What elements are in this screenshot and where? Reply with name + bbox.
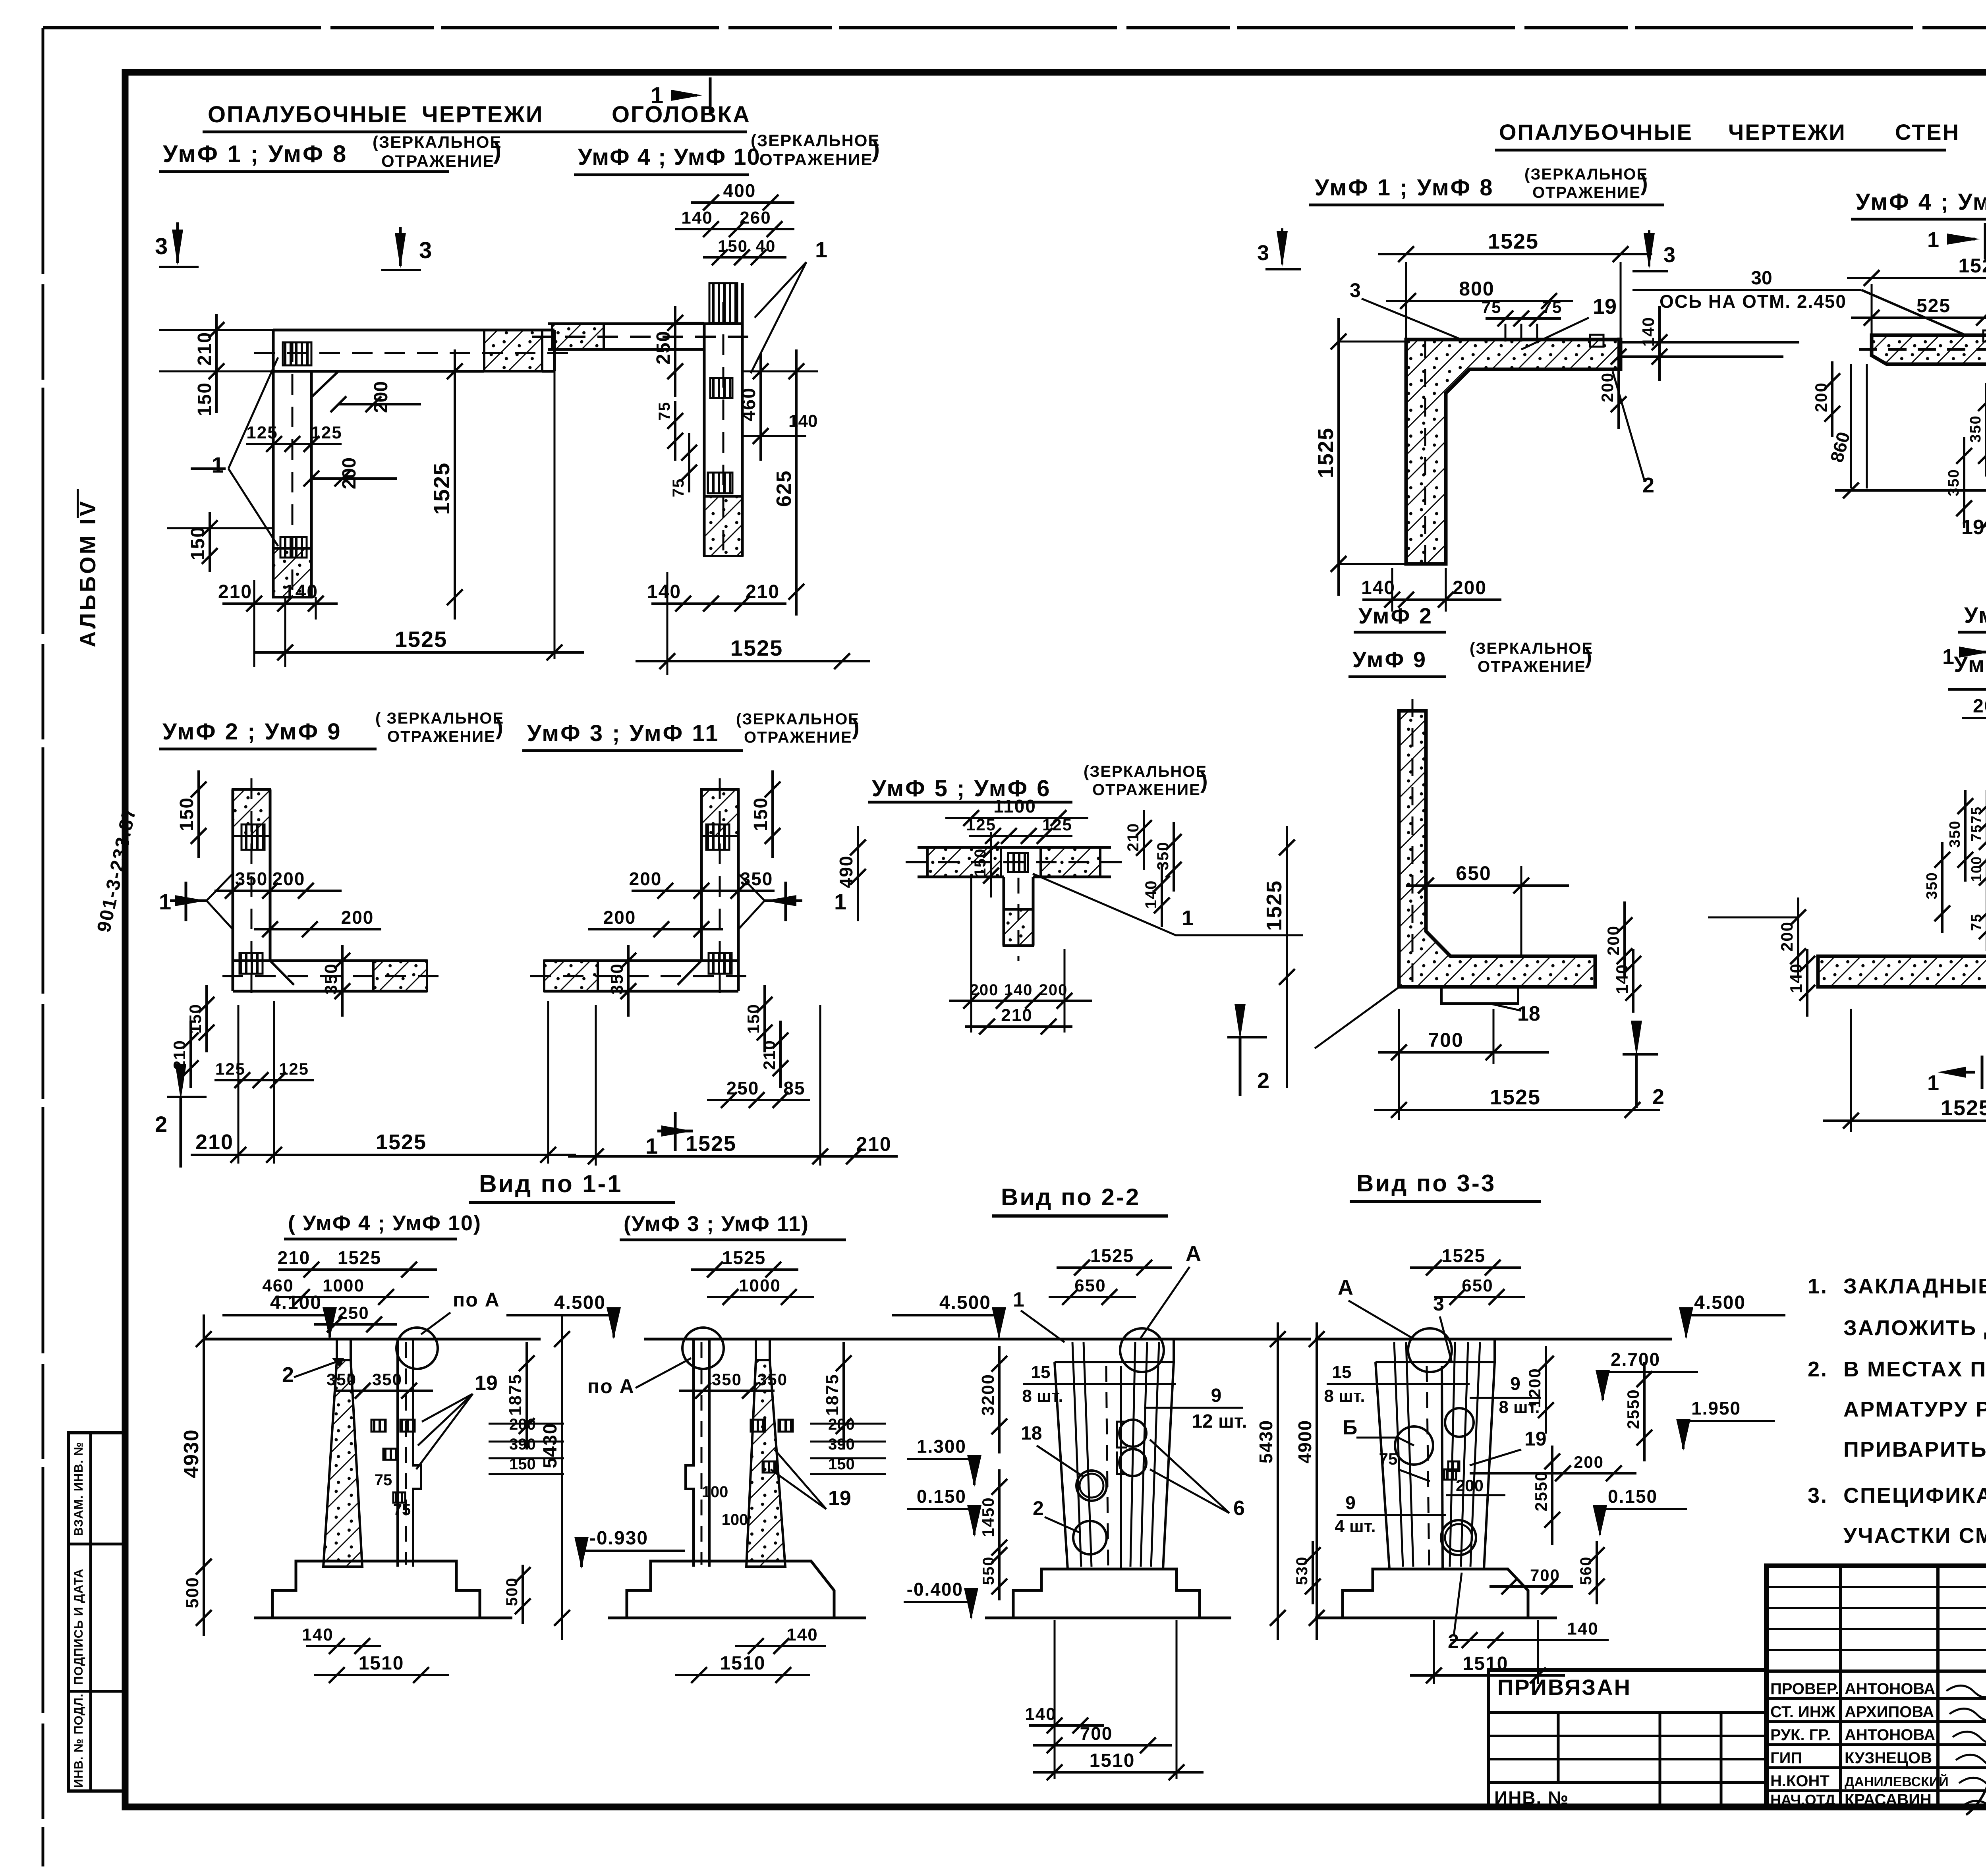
svg-text:1: 1 — [1182, 906, 1194, 930]
svg-text:210: 210 — [760, 1040, 779, 1070]
drawing B dims bottom — [651, 602, 786, 605]
svg-text:1525: 1525 — [338, 1247, 381, 1268]
vid 3-3 circles — [1445, 1408, 1474, 1437]
svg-text:1525: 1525 — [1941, 1096, 1986, 1120]
svg-text:150: 150 — [187, 526, 209, 560]
vid 3-3 footing — [1343, 1569, 1528, 1618]
svg-text:4.500: 4.500 — [554, 1292, 606, 1313]
svg-text:1: 1 — [651, 83, 663, 108]
svg-text:140: 140 — [1004, 981, 1033, 999]
svg-text:): ) — [1200, 768, 1208, 793]
svg-text:ДАНИЛЕВСКИЙ: ДАНИЛЕВСКИЙ — [1845, 1774, 1949, 1789]
svg-text:200: 200 — [970, 981, 999, 999]
svg-text:2.700: 2.700 — [1611, 1349, 1660, 1370]
svg-text:75: 75 — [393, 1501, 411, 1519]
title block main row lines — [1766, 1697, 1986, 1700]
drawing G walls — [1872, 313, 1986, 535]
svg-text:УмФ 4 ; Ум 10: УмФ 4 ; Ум 10 — [1856, 189, 1986, 215]
drawing B walls — [709, 283, 737, 323]
svg-text:ПРИВЯЗАН: ПРИВЯЗАН — [1497, 1675, 1631, 1700]
svg-text:350: 350 — [1924, 872, 1940, 899]
svg-text:РУК. ГР.: РУК. ГР. — [1770, 1726, 1831, 1744]
svg-text:140: 140 — [788, 411, 817, 431]
svg-text:3200: 3200 — [978, 1374, 998, 1416]
svg-text:1100: 1100 — [993, 796, 1036, 816]
svg-text:1: 1 — [1927, 1071, 1939, 1095]
svg-text:140: 140 — [1613, 964, 1631, 994]
svg-text:3: 3 — [1433, 1293, 1444, 1315]
svg-text:9: 9 — [1510, 1373, 1520, 1394]
svg-text:3: 3 — [1257, 241, 1269, 265]
svg-text:ОТРАЖЕНИЕ: ОТРАЖЕНИЕ — [1532, 184, 1641, 201]
svg-text:8 шт.: 8 шт. — [1324, 1386, 1365, 1406]
svg-text:СТЕН: СТЕН — [1895, 120, 1960, 145]
svg-text:140: 140 — [1639, 317, 1658, 347]
svg-text:200: 200 — [1604, 925, 1623, 955]
svg-text:18: 18 — [1517, 1002, 1540, 1025]
svg-text:150: 150 — [972, 848, 989, 877]
svg-text:УмФ 1 ; УмФ 8: УмФ 1 ; УмФ 8 — [163, 141, 348, 167]
svg-text:1450: 1450 — [979, 1497, 997, 1537]
drawing B dims right — [742, 371, 818, 372]
svg-text:350: 350 — [1947, 820, 1963, 847]
svg-text:(УмФ 3 ; УмФ 11): (УмФ 3 ; УмФ 11) — [624, 1212, 809, 1236]
drawing F right dims — [1658, 306, 1661, 381]
svg-text:125: 125 — [279, 1060, 309, 1078]
svg-text:200: 200 — [1777, 921, 1796, 952]
svg-text:(ЗЕРКАЛЬНОЕ: (ЗЕРКАЛЬНОЕ — [373, 133, 502, 151]
svg-text:УЧАСТКИ СМ. ЛИСТ 56.: УЧАСТКИ СМ. ЛИСТ 56. — [1843, 1524, 1986, 1548]
svg-text:3: 3 — [155, 234, 168, 259]
svg-text:ОПАЛУБОЧНЫЕ: ОПАЛУБОЧНЫЕ — [208, 102, 408, 127]
svg-text:500: 500 — [503, 1577, 521, 1606]
svg-text:200: 200 — [1453, 577, 1487, 598]
svg-text:150: 150 — [744, 1004, 763, 1034]
svg-text:1: 1 — [211, 452, 224, 477]
svg-text:1525: 1525 — [1262, 880, 1286, 931]
svg-text:Вид по 3-3: Вид по 3-3 — [1356, 1170, 1496, 1197]
svg-text:1510: 1510 — [720, 1653, 766, 1674]
svg-text:АРМАТУРУ РАЗРЕЗАТЬ, ОТОГНУТЬ: АРМАТУРУ РАЗРЕЗАТЬ, ОТОГНУТЬ И — [1843, 1397, 1986, 1421]
svg-text:125: 125 — [246, 423, 278, 442]
svg-text:75: 75 — [1968, 913, 1984, 931]
svg-text:НАЧ.ОТД: НАЧ.ОТД — [1770, 1792, 1835, 1808]
svg-text:): ) — [852, 714, 860, 739]
title block thin change rows — [1766, 1586, 1986, 1588]
drawing E walls — [918, 846, 1111, 849]
svg-text:125: 125 — [311, 423, 342, 442]
svg-text:АНТОНОВА: АНТОНОВА — [1845, 1680, 1935, 1698]
vid 1-1 left bottom dims — [306, 1645, 381, 1647]
vid 1-1 left elevation — [204, 1338, 541, 1341]
svg-text:500: 500 — [183, 1577, 202, 1608]
svg-text:350: 350 — [712, 1370, 742, 1389]
drawing A dims left — [159, 329, 273, 331]
svg-text:210: 210 — [1001, 1006, 1032, 1025]
privyazan block — [1488, 1668, 1766, 1672]
svg-text:1875: 1875 — [506, 1374, 525, 1416]
svg-text:УмФ 1 ; УмФ 8: УмФ 1 ; УмФ 8 — [1315, 175, 1494, 201]
svg-text:по А: по А — [453, 1289, 500, 1311]
svg-text:12 шт.: 12 шт. — [1192, 1411, 1247, 1432]
svg-text:1525: 1525 — [1314, 427, 1338, 478]
svg-text:УмФ 2 ; УмФ 9: УмФ 2 ; УмФ 9 — [162, 719, 342, 745]
svg-text:8 шт.: 8 шт. — [1022, 1386, 1063, 1406]
svg-text:4900: 4900 — [1294, 1420, 1315, 1463]
svg-text:Б: Б — [1343, 1416, 1357, 1439]
svg-text:ОСЬ НА ОТМ. 2.450: ОСЬ НА ОТМ. 2.450 — [1660, 291, 1847, 312]
vid 2-2 dims — [1057, 1266, 1172, 1269]
svg-text:75: 75 — [1542, 298, 1563, 317]
vid 3-3 column — [1376, 1339, 1495, 1362]
title block signatures — [1946, 1685, 1986, 1697]
left sidebar boxes — [68, 1433, 125, 1791]
svg-text:200: 200 — [339, 457, 360, 489]
svg-text:1525: 1525 — [1090, 1245, 1134, 1266]
svg-text:): ) — [496, 714, 503, 739]
svg-text:2: 2 — [1652, 1085, 1664, 1109]
title block frame — [1766, 1566, 1986, 1808]
vid 3-3 top line — [1315, 1338, 1672, 1341]
svg-text:В МЕСТАХ ПРОХОДА САЛЬНИКОВ: В МЕСТАХ ПРОХОДА САЛЬНИКОВ — [1843, 1357, 1986, 1381]
svg-text:210: 210 — [856, 1133, 891, 1155]
svg-text:200: 200 — [1456, 1476, 1484, 1495]
svg-text:ОТРАЖЕНИЕ: ОТРАЖЕНИЕ — [381, 152, 495, 170]
svg-text:1510: 1510 — [359, 1653, 404, 1674]
svg-text:1: 1 — [1927, 228, 1939, 252]
svg-text:(ЗЕРКАЛЬНОЕ: (ЗЕРКАЛЬНОЕ — [1084, 763, 1207, 780]
svg-text:ПОДПИСЬ И ДАТА: ПОДПИСЬ И ДАТА — [71, 1569, 85, 1685]
svg-text:1: 1 — [645, 1133, 658, 1158]
svg-text:2: 2 — [155, 1112, 167, 1137]
svg-text:АРХИПОВА: АРХИПОВА — [1845, 1703, 1934, 1721]
drawing A dim 1525 vertical — [311, 371, 457, 372]
svg-text:3.: 3. — [1808, 1484, 1828, 1507]
svg-text:1525: 1525 — [1442, 1245, 1486, 1266]
svg-text:530: 530 — [1293, 1556, 1311, 1585]
svg-text:по А: по А — [587, 1375, 635, 1397]
svg-text:200: 200 — [603, 907, 636, 928]
svg-text:125: 125 — [966, 815, 996, 834]
svg-text:40: 40 — [756, 237, 776, 255]
svg-text:200: 200 — [1812, 382, 1830, 412]
svg-text:ОТРАЖЕНИЕ: ОТРАЖЕНИЕ — [1092, 781, 1201, 799]
svg-text:Вид по 1-1: Вид по 1-1 — [479, 1170, 623, 1198]
svg-text:100: 100 — [702, 1483, 728, 1501]
svg-text:3: 3 — [419, 237, 432, 263]
svg-text:460: 460 — [262, 1276, 294, 1295]
svg-text:( УмФ 4 ; УмФ 10): ( УмФ 4 ; УмФ 10) — [288, 1211, 481, 1235]
svg-text:2550: 2550 — [1532, 1471, 1550, 1511]
svg-text:140: 140 — [786, 1625, 818, 1644]
svg-text:(ЗЕРКАЛЬНОЕ: (ЗЕРКАЛЬНОЕ — [1470, 640, 1593, 657]
drawing H long leader — [1315, 985, 1402, 1048]
svg-text:210: 210 — [195, 1130, 234, 1154]
svg-text:100: 100 — [722, 1511, 748, 1529]
svg-text:1525: 1525 — [722, 1247, 766, 1268]
svg-text:19: 19 — [1961, 516, 1984, 539]
svg-text:ОПАЛУБОЧНЫЕ: ОПАЛУБОЧНЫЕ — [1499, 120, 1693, 145]
drawing H walls — [1399, 711, 1595, 987]
svg-text:1000: 1000 — [323, 1276, 365, 1295]
svg-text:75: 75 — [670, 478, 687, 498]
svg-text:200: 200 — [341, 907, 374, 928]
svg-text:210: 210 — [278, 1247, 311, 1268]
drawing C dims — [197, 770, 200, 858]
svg-text:СПЕЦИФИКАЦИЮ НА МОНОЛИТНЫЕ: СПЕЦИФИКАЦИЮ НА МОНОЛИТНЫЕ — [1843, 1484, 1986, 1507]
svg-text:350: 350 — [372, 1370, 402, 1389]
svg-text:АНТОНОВА: АНТОНОВА — [1845, 1726, 1935, 1744]
svg-text:4.500: 4.500 — [939, 1292, 991, 1313]
svg-text:19: 19 — [828, 1487, 851, 1510]
svg-text:3: 3 — [1663, 243, 1675, 267]
svg-text:0.150: 0.150 — [917, 1486, 966, 1507]
vid 2-2 footing — [1013, 1569, 1200, 1618]
svg-text:4.500: 4.500 — [1694, 1292, 1746, 1313]
vid 1-1 left footing — [272, 1561, 480, 1618]
svg-text:УмФ 11: УмФ 11 — [1954, 652, 1986, 677]
svg-text:УмФ 3 ; УмФ 11: УмФ 3 ; УмФ 11 — [527, 720, 720, 746]
svg-text:5430: 5430 — [1256, 1420, 1276, 1463]
svg-text:140: 140 — [1361, 577, 1395, 598]
svg-text:4930: 4930 — [180, 1429, 203, 1478]
svg-text:125: 125 — [1042, 815, 1072, 834]
svg-text:210: 210 — [218, 581, 252, 602]
drawing H dims — [1406, 884, 1569, 887]
svg-text:1.950: 1.950 — [1691, 1398, 1741, 1419]
svg-text:ОТРАЖЕНИЕ: ОТРАЖЕНИЕ — [1478, 658, 1586, 676]
svg-text:ПРОВЕР.: ПРОВЕР. — [1770, 1680, 1839, 1698]
svg-text:2.: 2. — [1808, 1357, 1828, 1381]
svg-text:(ЗЕРКАЛЬНОЕ: (ЗЕРКАЛЬНОЕ — [736, 710, 860, 728]
svg-text:19: 19 — [1524, 1428, 1547, 1450]
svg-text:ГИП: ГИП — [1770, 1749, 1802, 1767]
svg-text:ВЗАМ. ИНВ. №: ВЗАМ. ИНВ. № — [71, 1442, 85, 1536]
svg-text:140: 140 — [1142, 880, 1160, 909]
svg-text:2: 2 — [1257, 1068, 1269, 1093]
svg-text:1525: 1525 — [1958, 255, 1986, 277]
svg-text:ЗАЛОЖИТЬ ДО БЕТОНИРОВАНИЯ.: ЗАЛОЖИТЬ ДО БЕТОНИРОВАНИЯ. — [1843, 1316, 1986, 1340]
svg-text:9: 9 — [1345, 1492, 1356, 1513]
svg-text:200: 200 — [1039, 981, 1068, 999]
vid 2-2 top line — [958, 1338, 1311, 1341]
svg-text:75: 75 — [1968, 824, 1984, 841]
svg-text:1525: 1525 — [1490, 1085, 1541, 1109]
drawing A dims bottom — [253, 580, 255, 667]
svg-text:100: 100 — [1968, 856, 1984, 882]
svg-text:250: 250 — [338, 1303, 369, 1323]
svg-text:А: А — [1186, 1242, 1201, 1266]
svg-text:390: 390 — [509, 1436, 536, 1453]
svg-text:30: 30 — [1751, 268, 1772, 289]
svg-text:УмФ 2: УмФ 2 — [1358, 603, 1433, 628]
svg-text:210: 210 — [746, 581, 780, 602]
drawing F bottom dims — [1362, 598, 1501, 601]
svg-text:): ) — [493, 137, 501, 164]
vid 1-1 right dims — [691, 1268, 798, 1271]
vid 1-1 left dims — [278, 1268, 437, 1271]
svg-text:ИНВ. №: ИНВ. № — [1494, 1787, 1569, 1808]
svg-text:350: 350 — [321, 963, 341, 994]
svg-text:КУЗНЕЦОВ: КУЗНЕЦОВ — [1845, 1749, 1932, 1767]
title block verticals left part — [1839, 1566, 1842, 1808]
svg-text:ОГОЛОВКА: ОГОЛОВКА — [612, 102, 751, 127]
drawing H right dims — [1623, 901, 1626, 977]
svg-text:1525: 1525 — [429, 462, 454, 515]
svg-text:350: 350 — [1945, 469, 1962, 496]
svg-text:6: 6 — [1233, 1497, 1245, 1520]
drawing B small dims 75 — [674, 401, 676, 461]
svg-text:): ) — [1640, 170, 1648, 195]
drawing C walls — [233, 789, 270, 836]
drawing I walls — [1818, 747, 1986, 987]
svg-text:1525: 1525 — [686, 1132, 736, 1156]
svg-text:250: 250 — [726, 1078, 759, 1098]
svg-text:ОТРАЖЕНИЕ: ОТРАЖЕНИЕ — [744, 729, 852, 746]
svg-text:350: 350 — [1967, 415, 1984, 442]
svg-text:4 шт.: 4 шт. — [1335, 1517, 1376, 1536]
svg-text:Н.КОНТ: Н.КОНТ — [1770, 1772, 1830, 1790]
svg-text:ИНВ. № ПОДЛ.: ИНВ. № ПОДЛ. — [71, 1693, 85, 1788]
drawing I small dims left column — [1986, 790, 1986, 842]
svg-text:1000: 1000 — [739, 1276, 781, 1295]
svg-text:700: 700 — [1530, 1566, 1560, 1585]
svg-text:210: 210 — [1124, 823, 1142, 852]
svg-text:1525: 1525 — [376, 1130, 427, 1154]
vid 2-2 bottom dims — [1029, 1724, 1104, 1727]
drawing A dims middle — [246, 443, 342, 445]
vid 3-3 dims — [1410, 1266, 1521, 1269]
svg-text:(ЗЕРКАЛЬНОЕ: (ЗЕРКАЛЬНОЕ — [1524, 166, 1648, 183]
svg-text:0.150: 0.150 — [1608, 1486, 1658, 1507]
vid 1-1 right elev -0.930 — [582, 1550, 685, 1552]
svg-text:1875: 1875 — [823, 1374, 842, 1416]
svg-text:400: 400 — [723, 180, 756, 201]
svg-text:350: 350 — [757, 1370, 788, 1389]
svg-text:1: 1 — [834, 889, 846, 914]
svg-text:2: 2 — [282, 1363, 294, 1387]
svg-text:19: 19 — [1593, 295, 1617, 318]
svg-text:ОТРАЖЕНИЕ: ОТРАЖЕНИЕ — [387, 728, 496, 745]
drawing B dim 250 left — [674, 306, 676, 397]
drawing E right vertical dim 1525 — [1286, 826, 1288, 1088]
svg-text:200: 200 — [1574, 1453, 1604, 1471]
vid 2-2 column — [1055, 1339, 1174, 1362]
svg-text:УмФ 9: УмФ 9 — [1352, 647, 1427, 672]
svg-text:525: 525 — [1916, 295, 1951, 317]
drawing F dims top — [1378, 253, 1652, 255]
svg-text:140: 140 — [284, 581, 318, 602]
svg-text:2: 2 — [1033, 1497, 1044, 1519]
drawing E dims — [945, 817, 1088, 819]
svg-text:18: 18 — [1021, 1423, 1042, 1444]
svg-text:140: 140 — [302, 1625, 333, 1644]
svg-text:650: 650 — [1074, 1276, 1106, 1295]
svg-text:АЛЬБОМ IV: АЛЬБОМ IV — [75, 499, 100, 647]
svg-text:350: 350 — [326, 1370, 357, 1389]
svg-text:1: 1 — [1013, 1288, 1024, 1311]
svg-text:9: 9 — [1211, 1385, 1222, 1406]
drawing I left dims — [1797, 897, 1799, 977]
svg-text:1510: 1510 — [1090, 1750, 1135, 1771]
svg-text:1: 1 — [159, 889, 171, 914]
svg-text:5430: 5430 — [540, 1423, 561, 1469]
svg-text:650: 650 — [1456, 862, 1491, 884]
svg-text:390: 390 — [828, 1436, 855, 1453]
vid 1-1 right bottom dims — [735, 1645, 826, 1647]
svg-text:650: 650 — [1462, 1276, 1493, 1295]
svg-text:КРАСАВИН: КРАСАВИН — [1845, 1791, 1932, 1808]
svg-text:210: 210 — [194, 332, 215, 366]
svg-text:1: 1 — [1942, 645, 1954, 669]
svg-text:625: 625 — [773, 470, 796, 507]
drawing F left dim 1525 — [1337, 318, 1340, 596]
drawing A walls — [254, 352, 568, 354]
svg-text:350: 350 — [607, 963, 627, 994]
svg-text:200: 200 — [629, 869, 662, 889]
svg-text:150: 150 — [176, 797, 197, 831]
svg-text:(ЗЕРКАЛЬНОЕ: (ЗЕРКАЛЬНОЕ — [751, 131, 880, 150]
paper outer edge lines — [42, 28, 44, 1866]
svg-text:140: 140 — [1567, 1619, 1598, 1639]
svg-text:3: 3 — [1350, 279, 1361, 301]
svg-text:200: 200 — [1973, 696, 1986, 717]
svg-text:350: 350 — [740, 869, 773, 889]
svg-text:-0.400: -0.400 — [907, 1579, 963, 1600]
svg-text:): ) — [872, 135, 880, 162]
drawing I top dims — [1962, 717, 1986, 719]
svg-text:350: 350 — [235, 869, 268, 889]
svg-text:150: 150 — [186, 1004, 205, 1034]
svg-text:150: 150 — [194, 382, 215, 416]
svg-text:ЧЕРТЕЖИ: ЧЕРТЕЖИ — [1728, 120, 1846, 145]
drawing I bottom dims — [1823, 1119, 1986, 1122]
svg-text:2550: 2550 — [1624, 1389, 1642, 1429]
drawing F walls — [1406, 340, 1621, 564]
svg-text:19: 19 — [475, 1372, 498, 1395]
vid 1-1 right elevation — [644, 1338, 969, 1341]
svg-text:1.: 1. — [1808, 1274, 1828, 1298]
svg-text:1.300: 1.300 — [917, 1436, 966, 1457]
svg-text:140: 140 — [1787, 963, 1805, 993]
svg-text:А: А — [1338, 1276, 1353, 1299]
svg-text:УмФ 4 ; УмФ 10: УмФ 4 ; УмФ 10 — [578, 144, 761, 170]
drawing G left small dims — [1831, 361, 1833, 437]
svg-text:75: 75 — [1968, 806, 1984, 824]
svg-text:200: 200 — [371, 381, 392, 413]
svg-text:200: 200 — [272, 869, 305, 889]
svg-text:УмФ 3: УмФ 3 — [1964, 602, 1986, 627]
svg-text:700: 700 — [1428, 1029, 1463, 1051]
svg-text:15: 15 — [1332, 1363, 1352, 1382]
svg-text:140: 140 — [681, 208, 713, 228]
svg-text:ПРИВАРИТЬ К КОРПУСУ САЛЬНИК: ПРИВАРИТЬ К КОРПУСУ САЛЬНИКА. — [1843, 1438, 1986, 1461]
drawing B top dims — [691, 201, 794, 204]
svg-text:Вид по 2-2: Вид по 2-2 — [1001, 1184, 1140, 1210]
svg-text:250: 250 — [653, 330, 674, 365]
svg-text:75: 75 — [1379, 1449, 1398, 1468]
svg-text:75: 75 — [656, 401, 673, 421]
svg-text:150: 150 — [718, 237, 748, 255]
svg-text:1525: 1525 — [1488, 230, 1539, 253]
svg-text:1200: 1200 — [1525, 1368, 1544, 1408]
svg-text:1525: 1525 — [730, 635, 783, 660]
svg-text:75: 75 — [1482, 298, 1502, 317]
svg-text:260: 260 — [740, 208, 771, 228]
svg-text:150: 150 — [750, 797, 771, 831]
svg-text:ЗАКЛАДНЫЕ ИЗДЕЛИЯ И САЛЬНИК: ЗАКЛАДНЫЕ ИЗДЕЛИЯ И САЛЬНИКИ — [1843, 1274, 1986, 1298]
svg-text:( ЗЕРКАЛЬНОЕ: ( ЗЕРКАЛЬНОЕ — [375, 710, 504, 727]
